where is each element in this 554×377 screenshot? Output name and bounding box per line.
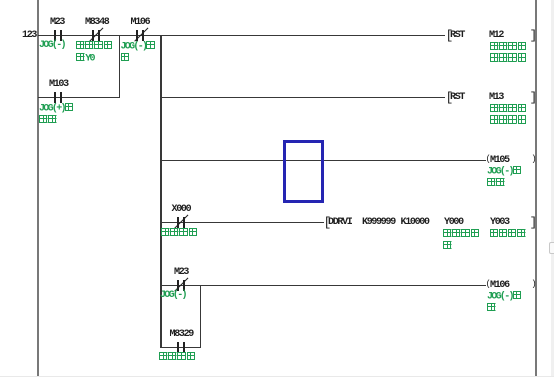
contact X000 rung4 (NC) bbox=[177, 217, 179, 228]
wire rung1 main bbox=[38, 35, 445, 37]
instruction RST M12 bbox=[446, 29, 454, 42]
contact M23 rung5 (NC) bbox=[177, 280, 179, 291]
coil M106 bbox=[486, 280, 491, 289]
step number 123 bbox=[22, 31, 36, 41]
cursor cell box bbox=[283, 140, 324, 203]
bottom window edge bbox=[0, 376, 554, 377]
scrollbar thumb fragment bbox=[549, 242, 554, 254]
contact M23 rung1 (NO) bbox=[54, 30, 56, 41]
contact M103 rung2 (NO) bbox=[54, 92, 56, 103]
wire rung4 to DDRVI bbox=[160, 222, 324, 224]
wire rung3 to coil M105 bbox=[160, 160, 486, 162]
branch vertical M103 to rung1 bbox=[119, 35, 121, 98]
contact M8348 rung1 (NC) bbox=[92, 30, 94, 41]
wire rung5 to coil M106 bbox=[160, 285, 486, 287]
wire rung2 from trunk to RST bbox=[160, 97, 445, 99]
instruction RST M13 bbox=[446, 91, 454, 104]
wire rung6 branch M8329 bbox=[160, 347, 200, 349]
trunk vertical junction line bbox=[160, 35, 162, 348]
instruction DDRVI bbox=[324, 216, 332, 229]
left power rail bbox=[37, 0, 39, 377]
branch vertical M8329 right side bbox=[200, 285, 202, 348]
window edge strip right bbox=[551, 0, 554, 377]
contact M106 rung1 (NC) bbox=[136, 30, 138, 41]
wire rung2 branch M103 bbox=[38, 97, 120, 99]
coil M105 bbox=[486, 155, 491, 164]
right power rail bbox=[535, 0, 537, 377]
contact M8329 rung6 (NO) bbox=[177, 342, 179, 353]
